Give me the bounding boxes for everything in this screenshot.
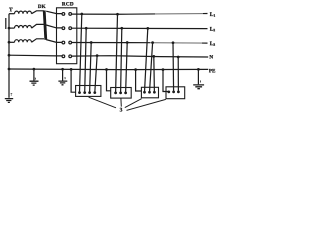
svg-text:3: 3 bbox=[120, 108, 123, 114]
svg-text:L3: L3 bbox=[210, 41, 216, 47]
svg-text:L2: L2 bbox=[210, 27, 216, 33]
svg-text:RCD: RCD bbox=[62, 1, 74, 7]
svg-text:DK: DK bbox=[38, 4, 46, 10]
svg-text:T: T bbox=[9, 7, 13, 13]
svg-text:PE: PE bbox=[209, 68, 216, 74]
svg-text:N: N bbox=[209, 54, 213, 60]
svg-text:L1: L1 bbox=[210, 12, 216, 18]
